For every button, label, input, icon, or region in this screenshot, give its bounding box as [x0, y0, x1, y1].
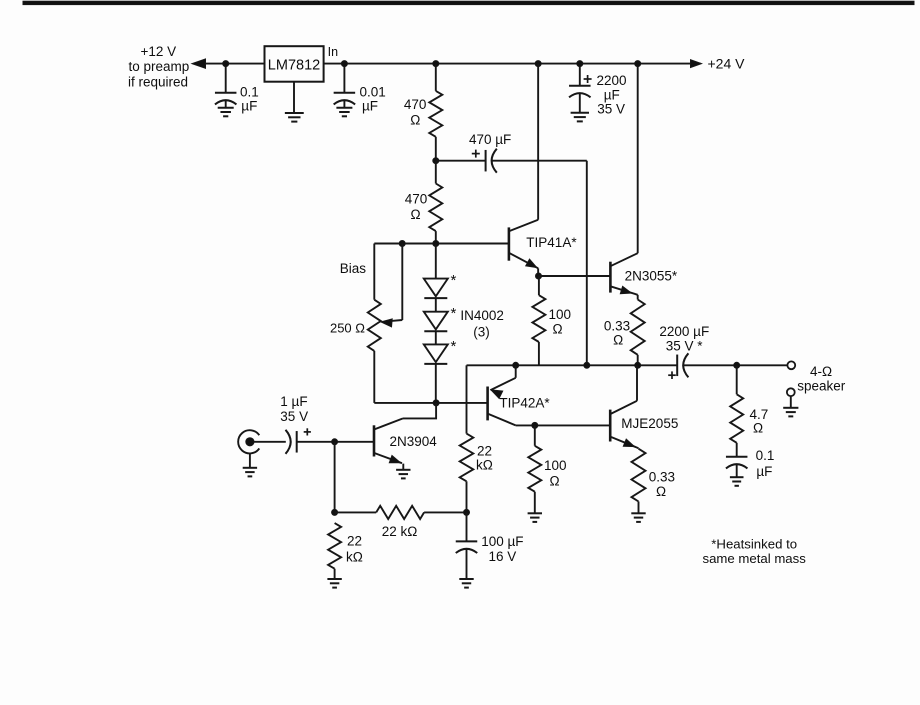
- wire C2 to ground: [343, 100, 345, 108]
- node 22k junction right: [464, 509, 470, 515]
- node output/Q3 emitter: [513, 362, 519, 368]
- svg-text:µF: µF: [604, 87, 620, 102]
- svg-text:2N3055*: 2N3055*: [625, 269, 678, 284]
- wire bootstrap vertical to output: [586, 161, 588, 366]
- svg-text:to preamp: to preamp: [129, 59, 190, 74]
- svg-text:22: 22: [347, 534, 362, 549]
- svg-text:TIP42A*: TIP42A*: [499, 395, 550, 410]
- svg-text:35 V: 35 V: [597, 102, 625, 117]
- terminal speaker return: [787, 388, 795, 396]
- svg-text:(3): (3): [473, 325, 490, 340]
- wire rail to Q1 collector: [537, 64, 539, 220]
- leads R10: [335, 511, 377, 513]
- capacitor C1 0.1uF: [215, 92, 237, 94]
- Q5 collector: [374, 418, 403, 429]
- wire bias line to Q1 base: [374, 243, 509, 245]
- wire connector to ground: [249, 453, 251, 467]
- node rail/Q2 collector: [635, 61, 641, 67]
- arrow pot wiper: [381, 319, 392, 327]
- plus C5: [668, 374, 676, 376]
- svg-text:470 µF: 470 µF: [469, 132, 511, 147]
- wire R1 to node: [435, 137, 437, 161]
- svg-text:*Heatsinked to: *Heatsinked to: [711, 536, 797, 551]
- svg-text:MJE2055: MJE2055: [621, 416, 678, 431]
- wire +12V arrow to LM7812: [199, 63, 265, 65]
- Q5 emitter: [374, 453, 402, 463]
- node Q1 emitter: [536, 273, 542, 279]
- svg-text:*: *: [451, 305, 457, 322]
- wire Q1 emitter to node: [537, 268, 539, 276]
- wire output to feedback resistor: [466, 365, 468, 433]
- wire node to R6: [534, 425, 536, 445]
- wire Q4 collector to output line: [636, 365, 638, 401]
- svg-text:1 µF: 1 µF: [280, 394, 307, 409]
- wire connector to C7: [254, 441, 286, 443]
- svg-text:Bias: Bias: [340, 261, 367, 276]
- arrow Q2 emitter: [620, 286, 631, 293]
- wire output to R8: [736, 365, 738, 394]
- node output/R5/Q4 collector: [635, 362, 641, 368]
- svg-text:TIP41A*: TIP41A*: [526, 235, 577, 250]
- wire D3 to lower bias node: [435, 364, 437, 403]
- ground C3: [571, 112, 589, 114]
- ground Q5: [396, 469, 410, 471]
- Q3 collector: [488, 414, 516, 426]
- diode D1 1N4002: [424, 279, 448, 297]
- svg-text:+24 V: +24 V: [708, 55, 746, 71]
- wire +24V rail: [324, 63, 701, 65]
- svg-text:100: 100: [544, 458, 567, 473]
- node bias/wiper: [399, 241, 405, 247]
- svg-text:Ω: Ω: [613, 333, 623, 348]
- diode D3 1N4002: [424, 344, 448, 362]
- arrow Q1 emitter: [526, 259, 537, 268]
- svg-text:35 V: 35 V: [280, 409, 308, 424]
- capacitor C1 0.1uF lead: [225, 64, 227, 93]
- Q1 emitter: [509, 253, 538, 268]
- svg-text:speaker: speaker: [797, 378, 846, 393]
- node 22k junction left: [332, 509, 338, 515]
- ground C8: [459, 578, 473, 580]
- resistor R11 22k: [328, 523, 341, 569]
- resistor R6 100: [528, 446, 541, 492]
- svg-text:Ω: Ω: [411, 207, 421, 222]
- transistor Q1 TIP41A base bar: [508, 227, 511, 260]
- wire output line: [467, 364, 678, 366]
- node rail/C1: [223, 61, 229, 67]
- resistor R2 470: [429, 184, 442, 232]
- wire Q2 emitter to R5: [637, 295, 639, 300]
- Q3 emitter: [515, 365, 517, 378]
- diode D2 1N4002: [424, 312, 448, 330]
- wire node to C8: [466, 512, 468, 541]
- capacitor C2 0.01uF lead: [343, 64, 345, 93]
- svg-text:250 Ω: 250 Ω: [330, 320, 365, 335]
- svg-text:0.33: 0.33: [649, 470, 675, 485]
- wire R2 to bias line: [435, 231, 437, 243]
- wire input node down to 22k node: [334, 442, 336, 513]
- svg-text:LM7812: LM7812: [268, 58, 320, 74]
- capacitor C4 470uF: [485, 150, 487, 172]
- wire C4 to bootstrap vertical: [492, 160, 587, 162]
- Q4 emitter: [610, 437, 638, 449]
- wire R5 to output line: [637, 355, 639, 366]
- node output/R8: [734, 362, 740, 368]
- svg-text:2N3904: 2N3904: [390, 434, 438, 449]
- svg-text:100: 100: [549, 307, 572, 322]
- svg-text:0.1: 0.1: [240, 84, 259, 99]
- wire LM7812 to ground: [293, 82, 295, 113]
- svg-text:0.01: 0.01: [360, 84, 386, 99]
- wire C7 to Q5 base: [297, 441, 374, 443]
- node output/bootstrap: [584, 362, 590, 368]
- capacitor C2 0.01uF: [334, 92, 356, 94]
- svg-text:16 V: 16 V: [489, 549, 517, 564]
- arrow Q4 emitter: [623, 439, 634, 447]
- wire R6 to ground: [534, 492, 536, 514]
- wire C1 to ground: [225, 100, 227, 108]
- resistor R8 4.7: [730, 394, 743, 443]
- wire pot bottom: [373, 351, 375, 403]
- svg-text:if required: if required: [128, 75, 188, 90]
- Q4 collector: [610, 401, 637, 414]
- node rail/R1: [433, 61, 439, 67]
- svg-text:Ω: Ω: [753, 421, 763, 436]
- capacitor C5 2200uF: [676, 355, 678, 377]
- capacitor C8 100uF: [456, 540, 478, 542]
- svg-text:470: 470: [404, 97, 427, 112]
- svg-text:2200: 2200: [597, 73, 627, 88]
- wire rail to C3: [579, 64, 581, 86]
- wire R7 to ground: [638, 502, 640, 514]
- wire C3 to ground: [579, 93, 581, 113]
- svg-text:0.1: 0.1: [756, 448, 775, 463]
- page top rule: [23, 1, 914, 4]
- svg-text:same metal mass: same metal mass: [703, 551, 807, 566]
- svg-text:*: *: [451, 338, 457, 355]
- wire R9 to lower node: [466, 481, 468, 512]
- wire Q1 emitter to Q2 base: [539, 275, 611, 277]
- arrow +12V left: [192, 59, 206, 68]
- svg-text:Ω: Ω: [410, 113, 420, 128]
- arrow Q5 emitter: [389, 455, 400, 462]
- resistor R10 22k: [376, 506, 424, 519]
- svg-text:kΩ: kΩ: [346, 550, 363, 565]
- wire bias to pot top: [373, 244, 375, 300]
- potentiometer R3 250: [368, 300, 381, 351]
- svg-text:µF: µF: [241, 99, 257, 114]
- svg-text:+12 V: +12 V: [141, 44, 177, 59]
- svg-text:µF: µF: [362, 99, 378, 114]
- svg-text:22 kΩ: 22 kΩ: [382, 524, 418, 539]
- svg-text:Ω: Ω: [656, 484, 666, 499]
- connector center pin: [246, 438, 254, 446]
- transistor Q4 MJE2055 base bar: [609, 410, 612, 442]
- wire R4 to output line: [538, 342, 540, 365]
- svg-text:IN4002: IN4002: [460, 308, 504, 323]
- svg-text:2200 µF: 2200 µF: [659, 324, 709, 339]
- wire R11 to ground: [334, 569, 336, 579]
- capacitor C7 1uF: [296, 431, 298, 453]
- ground R7: [631, 512, 645, 514]
- Q2 collector: [610, 253, 637, 266]
- capacitor C6 0.1uF: [726, 456, 748, 458]
- node Q5 base/feedback: [332, 439, 338, 445]
- arrow +24V right: [691, 60, 702, 68]
- resistor R5 0.33: [631, 300, 645, 355]
- plus C4: [472, 153, 480, 155]
- node rail/C3: [577, 61, 583, 67]
- svg-text:22: 22: [477, 443, 492, 458]
- arrow Q3 emitter: [491, 390, 503, 399]
- transistor Q3 TIP42A base bar: [486, 387, 489, 421]
- wire Q5 emitter to ground: [402, 464, 404, 470]
- Q1 collector: [509, 220, 538, 231]
- wire bias bottom to Q3 base: [374, 402, 487, 404]
- node Q3 collector/R6: [532, 422, 538, 428]
- resistor R4 100: [532, 295, 545, 342]
- node rail/Q1 collector: [535, 61, 541, 67]
- ground C6: [730, 476, 744, 478]
- wire node to R4: [538, 276, 540, 295]
- capacitor C3 2200uF: [569, 85, 591, 87]
- svg-text:*: *: [451, 272, 457, 289]
- svg-text:100 µF: 100 µF: [481, 534, 523, 549]
- node R1/R2/C4: [433, 158, 439, 164]
- wire node to R2: [435, 161, 437, 184]
- svg-text:kΩ: kΩ: [476, 457, 493, 472]
- node rail/C2: [341, 61, 347, 67]
- wire C5 to speaker terminal: [684, 364, 788, 366]
- wire node to C4: [436, 160, 486, 162]
- transistor Q2 2N3055 base bar: [609, 262, 612, 293]
- ground R11: [327, 578, 341, 580]
- wire Q5 collector to bias node: [403, 403, 436, 419]
- svg-text:4-Ω: 4-Ω: [810, 364, 832, 379]
- svg-text:470: 470: [405, 192, 428, 207]
- node diodes/Q5 collector/Q3 base: [433, 400, 439, 406]
- wire Q2 collector to rail: [637, 64, 639, 254]
- resistor R7 0.33: [632, 449, 646, 502]
- terminal speaker +: [787, 361, 795, 369]
- ground LM7812: [285, 112, 304, 114]
- svg-text:In: In: [328, 45, 338, 59]
- wire bias to D1: [435, 244, 437, 279]
- wire rail to R1: [435, 64, 437, 91]
- wire speaker return to ground: [790, 396, 792, 408]
- svg-text:µF: µF: [756, 464, 772, 479]
- transistor Q5 2N3904 base bar: [373, 425, 376, 456]
- wire R8 to C6: [736, 443, 738, 457]
- wire C6 to ground: [736, 464, 738, 477]
- wire Q3 collector to Q4 base: [516, 424, 611, 426]
- node bias/diodes: [433, 241, 439, 247]
- regulator LM7812 box: [265, 46, 324, 81]
- svg-text:0.33: 0.33: [604, 318, 630, 333]
- svg-text:35 V *: 35 V *: [666, 339, 704, 354]
- connector input jack: [238, 430, 259, 453]
- svg-text:Ω: Ω: [549, 474, 559, 489]
- ground C1: [218, 107, 234, 109]
- ground C2: [336, 107, 352, 109]
- ground speaker: [783, 407, 798, 409]
- ground R6: [528, 512, 542, 514]
- resistor R9 22k: [460, 434, 474, 482]
- wire C8 to ground: [466, 549, 468, 579]
- Q2 emitter: [610, 286, 637, 295]
- ground connector: [243, 467, 257, 469]
- plus C7: [304, 431, 311, 433]
- plus C3: [584, 78, 592, 80]
- svg-text:Ω: Ω: [552, 321, 562, 336]
- resistor R1 470: [429, 91, 442, 137]
- pot wiper: [401, 244, 403, 321]
